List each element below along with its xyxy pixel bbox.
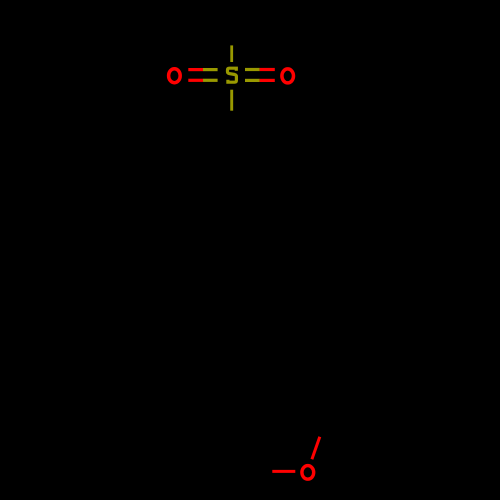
double bond S1=O2 upper line, S half (olive) [245,68,260,71]
double bond S1=O1 upper line, O half (red) [188,68,203,71]
bond S1-CH3 (sulfur half, olive) [230,45,233,62]
bond S1-C(aryl) (sulfur half, olive) [230,90,233,111]
double bond S1=O1 lower line, S half (olive) [203,79,218,82]
double bond S1=O1 upper line, S half (olive) [203,68,218,71]
atom label S1 (sulfur, olive) [228,68,237,82]
atom label O3 (bottom oxygen, red) [302,466,314,480]
atom label O2 (right oxygen, red) [282,69,294,83]
double bond S1=O1 lower line, O half (red) [188,79,203,82]
double bond S1=O2 upper line, O half (red) [260,68,275,71]
double bond S1=O2 lower line, S half (olive) [245,79,260,82]
bond O3-CH2 (upper right diagonal, oxygen half, red) [312,437,320,460]
bond O3-CH2 (left, oxygen half, red) [272,470,295,473]
atom label O1 (left oxygen, red) [169,69,181,83]
double bond S1=O2 lower line, O half (red) [260,79,275,82]
